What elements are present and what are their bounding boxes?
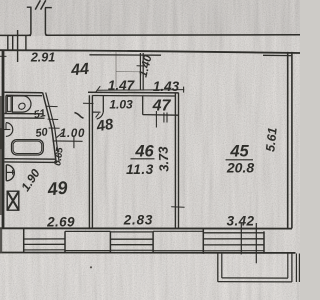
svg-text:1.47: 1.47 (108, 78, 136, 93)
right exterior wall line 1 (287, 52, 289, 229)
wall corridor/room46 line 2 (91, 95, 93, 229)
closet 48 door arc (97, 112, 104, 119)
break symbol slash 1 (35, 0, 40, 9)
window 3 line 3 (203, 244, 264, 246)
window mullion B top-left wall (12, 35, 14, 50)
bath block bottom wall upper (4, 158, 56, 161)
balcony bottom rail outer (218, 281, 292, 283)
dimension line 1.47/1.43 (97, 89, 184, 92)
window 3 line 2 (203, 238, 264, 240)
hall divider line (115, 52, 117, 87)
balcony bottom rail inner (222, 277, 288, 279)
bathtub inner (13, 141, 42, 153)
svg-text:44: 44 (69, 61, 89, 80)
balcony right rail inner (287, 253, 289, 278)
window 1 left jamb (23, 229, 25, 253)
wire: top outer line right segment (46, 34, 301, 37)
washbasin tap cross (3, 129, 11, 131)
stray pen mark in corridor (75, 113, 84, 119)
window 2 line 2 (110, 238, 153, 240)
top wall second line right segment (263, 54, 292, 56)
svg-text:46: 46 (134, 143, 154, 161)
svg-text:20.8: 20.8 (226, 160, 254, 176)
balcony right rail outer (291, 253, 293, 282)
neighbor balcony sliver line a (295, 254, 297, 283)
toilet 51 left inner face (5, 96, 7, 114)
svg-text:48: 48 (94, 116, 115, 136)
svg-text:2.91: 2.91 (30, 51, 55, 65)
pier bottom line between window2 and window3 (153, 250, 203, 252)
kitchen sink tap tick (12, 170, 14, 175)
stray dot (90, 266, 92, 268)
window 3 top line (203, 232, 264, 234)
wall corridor/room46 line 1 (88, 95, 90, 229)
closet 47 tick b (163, 113, 165, 123)
dimension line 1.00 (53, 140, 83, 142)
wire: top outer line left segment (0, 34, 31, 36)
balcony left rail inner (221, 253, 223, 278)
left wall inner face stub (0, 55, 7, 57)
room46 top wall inner (92, 95, 175, 98)
left exterior wall (2, 50, 5, 228)
svg-text:1.00: 1.00 (60, 128, 85, 140)
window 2 left jamb (109, 231, 111, 252)
dimension tick 1.00 right (73, 135, 75, 148)
wall 51/50 lower line (4, 117, 44, 119)
riser tick through bottom wall a (240, 223, 242, 255)
bottom wall inner line (0, 227, 292, 229)
tick on slant wall y106 (46, 105, 58, 107)
svg-text:1.43: 1.43 (153, 79, 180, 94)
window mullion A top-left wall (7, 35, 9, 50)
tick crossing wall at y103 (83, 102, 94, 104)
closet 48 right wall (102, 96, 104, 113)
tick on closet divider (137, 65, 146, 67)
room46 top wall outer (88, 91, 179, 94)
window 2 line 3 (110, 244, 153, 246)
svg-text:1.03: 1.03 (109, 98, 133, 112)
closet divider line a (139, 53, 141, 90)
bath block bottom wall lower (4, 161, 57, 164)
fraction line 45 (226, 159, 254, 161)
tick on slant wall y119 (48, 118, 59, 120)
toilet bowl (12, 96, 31, 112)
bottom wall outer line (0, 252, 296, 254)
svg-text:47: 47 (152, 98, 172, 115)
bath block slanted wall outer (43, 93, 57, 163)
washing machine box (7, 191, 19, 210)
tick on slant wall y128 (49, 127, 60, 129)
window 3 right jamb (263, 231, 265, 253)
pier2 right jamb (202, 229, 204, 254)
closet divider line b (142, 53, 144, 90)
closet 47 left wall (142, 96, 144, 115)
closet 48 door slash (96, 113, 99, 117)
tick crossing wall 46/45 at y207 (171, 206, 184, 208)
vent shaft top stub right (45, 7, 52, 9)
svg-text:3.42: 3.42 (227, 214, 255, 229)
washbasin stem (5, 123, 7, 129)
wall room46/room45 line 1 (174, 93, 176, 229)
pier bottom line between window1 and window2 (65, 250, 110, 252)
wall room46/room45 line 2 (178, 93, 180, 229)
toilet 51 top wall inner (6, 94, 42, 96)
fraction line 46 (131, 158, 155, 160)
left scan edge blob (0, 128, 3, 149)
window 3 line 4 (203, 250, 264, 252)
window 1 line 2 (24, 238, 65, 240)
toilet 51 top wall outer (4, 91, 42, 93)
bath block slanted wall inner (46, 93, 59, 162)
closet 47 bottom (143, 114, 179, 117)
bottom wall left solid pier (0, 228, 2, 252)
neighbor balcony sliver line b (298, 254, 300, 283)
toilet bowl inner circle (17, 102, 26, 111)
washing machine cross (7, 191, 19, 210)
dimension slash 1.47 left (95, 86, 100, 93)
pier line between window1 and window2 (65, 230, 110, 232)
window 1 right jamb (64, 231, 66, 252)
window mullion C top-left wall (25, 35, 27, 50)
window 2 line 4 (110, 249, 153, 251)
toilet cistern (7, 96, 11, 111)
vent shaft top stub left (27, 6, 32, 8)
riser tick through bottom wall b (255, 223, 257, 263)
dimension tick right (183, 87, 185, 93)
closet 47 tick c (166, 113, 168, 123)
window 1 line 3 (24, 243, 65, 245)
window 2 right jamb (152, 231, 154, 252)
window 2 top line (110, 231, 153, 233)
closet 48 bottom (93, 111, 101, 113)
vent shaft right riser (45, 8, 47, 36)
vent shaft left riser (29, 7, 31, 35)
svg-text:3.73: 3.73 (156, 145, 172, 172)
top wall second line left segment (89, 54, 161, 56)
svg-text:2.83: 2.83 (123, 213, 153, 228)
kitchen sink tap bar (6, 171, 14, 173)
pier line between window2 and window3 (153, 230, 203, 232)
washbasin 50 half disc (6, 123, 13, 137)
break symbol slash 2 (41, 0, 46, 9)
svg-text:45: 45 (229, 143, 249, 161)
svg-text:2.69: 2.69 (46, 215, 75, 230)
wall 51/50 upper line (4, 113, 43, 115)
dimension tick 2.91 left (17, 30, 19, 62)
kitchen sink bowl (6, 165, 14, 181)
dimension slash 1.00 left (57, 132, 63, 137)
bathtub outer (12, 140, 44, 155)
window 1 line 4 (24, 249, 65, 251)
right exterior wall line 2 (291, 52, 293, 229)
svg-text:5.61: 5.61 (263, 127, 279, 153)
svg-text:49: 49 (45, 177, 68, 199)
svg-text:11.3: 11.3 (126, 162, 154, 177)
hall shelf line (116, 71, 141, 73)
closet 47 tick a (155, 111, 157, 128)
left scan edge dark sliver (0, 96, 2, 215)
top wall inner line full width (0, 50, 300, 53)
balcony left rail outer (217, 253, 219, 282)
